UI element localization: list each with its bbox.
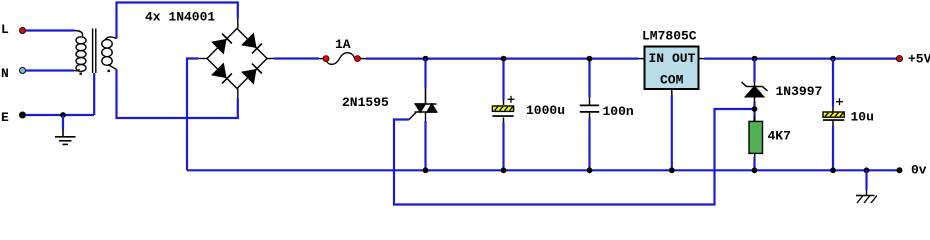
junction SCR cathode on 0V rail — [423, 167, 429, 173]
wire E to ground junction and transformer screen — [26, 114, 94, 116]
svg-text:COM: COM — [660, 73, 684, 88]
wire bridge DC- to 0V rail — [187, 59, 199, 171]
svg-text:2N1595: 2N1595 — [342, 95, 389, 110]
+V rail fuse to regulator — [366, 57, 639, 59]
svg-text:N: N — [1, 66, 9, 81]
junction COM on 0V rail — [669, 167, 675, 173]
svg-text:LM7805C: LM7805C — [642, 29, 697, 44]
capacitor C3 10u — [830, 56, 836, 62]
junction gate/zener/resistor — [752, 106, 758, 112]
svg-text:L: L — [1, 22, 9, 37]
wire to chassis ground — [865, 170, 867, 190]
terminal 0v — [897, 167, 903, 173]
0V rail — [187, 169, 899, 171]
junction E/ground — [60, 112, 66, 118]
primary winding — [74, 31, 83, 37]
regulator pin stubs — [639, 59, 705, 95]
wire zener to resistor — [753, 102, 755, 121]
junction SCR anode — [423, 56, 429, 62]
svg-text:4x 1N4001: 4x 1N4001 — [145, 10, 215, 25]
svg-text:+5V: +5V — [908, 52, 930, 67]
svg-text:1A: 1A — [335, 37, 351, 52]
svg-text:IN: IN — [649, 51, 665, 66]
terminal +5V — [897, 56, 903, 62]
wire SCR cathode to 0V — [424, 121, 426, 170]
wire SCR anode — [424, 59, 426, 88]
wire resistor to 0V rail — [753, 157, 755, 170]
+V rail regulator to +5V terminal — [705, 57, 897, 59]
wire bridge DC+ to fuse — [274, 57, 319, 59]
wire secondary bottom to bridge bottom — [117, 70, 238, 119]
svg-text:0v: 0v — [911, 163, 927, 178]
wire COM to 0V rail — [671, 95, 673, 170]
svg-text:OUT: OUT — [672, 51, 696, 66]
svg-text:E: E — [1, 110, 9, 125]
chassis ground symbol — [856, 190, 877, 203]
capacitor C2 100n — [588, 59, 590, 97]
svg-text:10u: 10u — [851, 110, 874, 125]
wire secondary top to bridge top — [117, 3, 238, 39]
wire L to transformer primary top — [26, 29, 74, 31]
svg-text:1000u: 1000u — [526, 103, 565, 118]
bridge rectifier diamond — [199, 19, 274, 98]
wire SCR gate to zener/resistor junction — [394, 109, 755, 205]
svg-text:100n: 100n — [603, 104, 634, 119]
transformer T1 — [74, 29, 117, 74]
secondary winding — [106, 37, 117, 40]
core — [92, 29, 94, 74]
diode D2 (top-right arm) — [241, 33, 263, 55]
junction resistor on 0V rail — [752, 167, 758, 173]
thyristor Q1 2N1595 — [409, 87, 437, 121]
wire transformer screen to earth — [93, 73, 95, 115]
terminal E — [20, 112, 26, 118]
capacitor C1 1000u — [502, 59, 504, 100]
zener diode D5 1N3997 — [742, 82, 768, 102]
resistor R1 4K7 — [754, 116, 756, 122]
diode D3 (left-bottom arm) — [211, 63, 233, 85]
diode D4 (bottom-right arm) — [241, 62, 263, 84]
ground (earth) symbol — [62, 115, 64, 129]
svg-text:1N3997: 1N3997 — [776, 84, 823, 99]
terminal N — [20, 68, 26, 74]
secondary phase dot — [108, 70, 110, 72]
primary phase dot — [80, 73, 82, 75]
junction chassis ground on 0V rail — [864, 167, 870, 173]
terminal L — [20, 28, 26, 34]
fuse F1 — [319, 53, 366, 65]
wire +V rail to zener — [753, 59, 755, 82]
diode D1 (left-top arm) — [211, 32, 233, 54]
wire N to transformer primary bottom — [26, 69, 74, 71]
junction zener top on +V rail — [752, 56, 758, 62]
svg-text:4K7: 4K7 — [768, 129, 791, 144]
regulator U1 LM7805C — [645, 47, 699, 90]
